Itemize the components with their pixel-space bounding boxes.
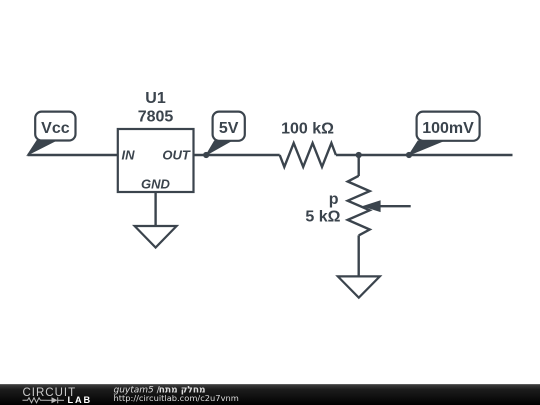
svg-text:OUT: OUT bbox=[162, 148, 191, 163]
svg-text:LAB: LAB bbox=[68, 395, 93, 405]
node dot: 100mV net bbox=[406, 152, 412, 158]
flag Vcc bbox=[28, 112, 76, 155]
resistor R1 (100 kΩ) zigzag bbox=[280, 143, 336, 167]
svg-text:p: p bbox=[329, 191, 339, 208]
wire: junction down to potentiometer P bbox=[358, 155, 360, 176]
ground (below U1) bbox=[135, 226, 177, 248]
wire: Vcc flag node to U1 IN pin bbox=[28, 154, 119, 156]
wire: R1 to output (passes junction and 100mV node) bbox=[336, 154, 513, 156]
wire: U1 GND pin down to ground bbox=[154, 192, 156, 226]
svg-text:U1: U1 bbox=[145, 90, 166, 107]
svg-text:http://circuitlab.com/c2u7vnm: http://circuitlab.com/c2u7vnm bbox=[114, 393, 239, 403]
node dot: 5V net bbox=[203, 152, 209, 158]
voltage regulator U1 7805 (box) bbox=[118, 129, 194, 192]
svg-text:7805: 7805 bbox=[138, 109, 174, 126]
svg-text:100mV: 100mV bbox=[422, 120, 474, 137]
potentiometer wiper arrow bbox=[362, 200, 411, 212]
wire: U1 OUT pin to resistor R1 bbox=[194, 154, 280, 156]
svg-text:100 kΩ: 100 kΩ bbox=[281, 121, 334, 138]
flag 5V bbox=[206, 112, 245, 155]
svg-text:Vcc: Vcc bbox=[41, 120, 70, 137]
wire: potentiometer bottom to ground bbox=[358, 235, 360, 276]
CircuitLab logo: resistor squiggle and diode bbox=[23, 397, 65, 403]
svg-text:IN: IN bbox=[122, 148, 136, 163]
ground (below potentiometer) bbox=[338, 276, 380, 297]
flag 100mV bbox=[409, 112, 480, 155]
svg-text:5V: 5V bbox=[219, 120, 239, 137]
footer bar bbox=[0, 384, 540, 405]
node dot: junction at top of potentiometer bbox=[356, 152, 362, 158]
potentiometer P (5 kΩ) vertical zigzag bbox=[348, 176, 370, 236]
svg-text:5 kΩ: 5 kΩ bbox=[305, 208, 340, 225]
svg-text:GND: GND bbox=[141, 177, 171, 192]
